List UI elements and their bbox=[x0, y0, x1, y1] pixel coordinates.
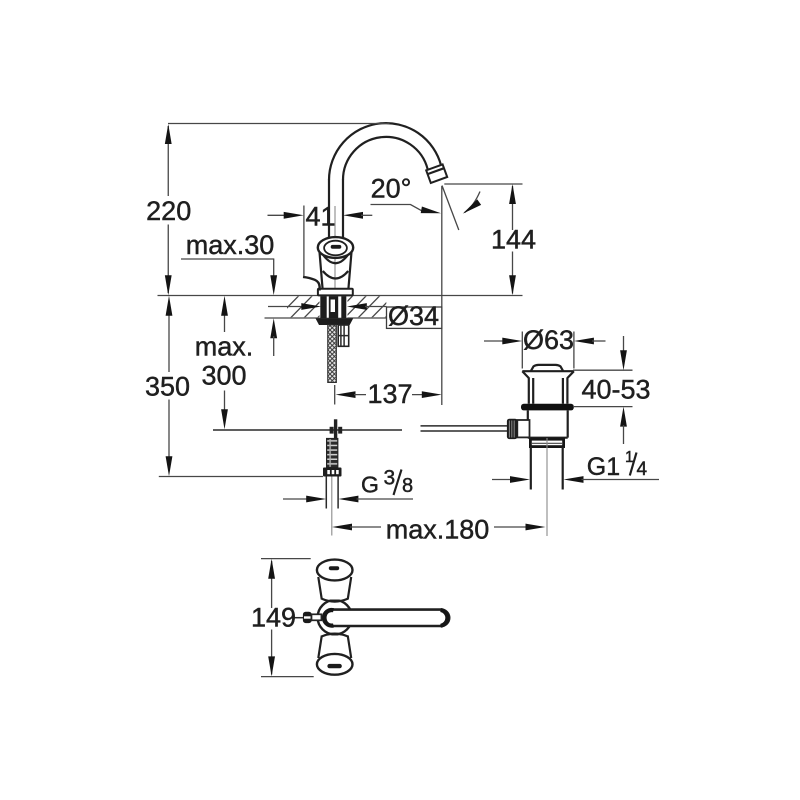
spout outlet vertical reference line bbox=[441, 186, 443, 405]
svg-text:350: 350 bbox=[145, 372, 190, 402]
spout bar bold left cap bbox=[324, 610, 334, 626]
drain centerline bbox=[546, 438, 548, 536]
dim 41 extension line bbox=[303, 206, 305, 277]
drain body outer walls bbox=[529, 378, 568, 404]
20 deg slanted line bbox=[442, 186, 459, 231]
drain plug dome bbox=[531, 365, 563, 371]
drain flange taper sides bbox=[522, 371, 574, 378]
dim O34 leader and box bbox=[268, 306, 304, 308]
supply hose stub bbox=[338, 325, 349, 346]
handle cap bottom arc bbox=[324, 256, 348, 264]
horizontal pop-up rod, right segment bbox=[421, 426, 508, 431]
threaded stud bbox=[328, 325, 337, 383]
deck bottom line bbox=[265, 317, 387, 319]
base escutcheon flange bbox=[318, 289, 353, 296]
knurled rod knob bbox=[507, 419, 518, 439]
dim 350 bottom reference line bbox=[159, 476, 323, 478]
hub circle bbox=[318, 600, 352, 634]
spout bar capsule bbox=[325, 610, 449, 626]
top handle ellipse bbox=[317, 560, 353, 581]
svg-text:149: 149 bbox=[251, 603, 296, 633]
horizontal pop-up rod, left segment bbox=[213, 429, 402, 431]
drain collar ring bbox=[530, 439, 563, 446]
svg-text:137: 137 bbox=[367, 379, 412, 409]
top handle slot bbox=[329, 566, 339, 570]
dim O63 bbox=[522, 332, 574, 369]
svg-text:G: G bbox=[361, 471, 379, 497]
dim 40-53 extension lines bbox=[573, 370, 633, 406]
handle skirt lower arc bbox=[323, 271, 348, 279]
G3/8 threaded connector bbox=[327, 439, 338, 468]
dim max.180 bbox=[332, 524, 352, 531]
drain tailpipe bbox=[531, 447, 563, 490]
riser pipe straight section bbox=[329, 180, 343, 241]
dim 137 bbox=[334, 385, 336, 405]
handle top inner ellipse bbox=[324, 241, 347, 256]
G3/8 nut bbox=[323, 468, 342, 477]
dim 144 line bbox=[512, 186, 514, 294]
dim 220 line bbox=[167, 126, 169, 293]
svg-text:8: 8 bbox=[402, 475, 413, 497]
mounting nut below deck bbox=[316, 318, 354, 325]
spout bar bold right cap bbox=[441, 610, 448, 626]
dim 149 bbox=[261, 559, 314, 677]
bottom handle neck bbox=[318, 636, 351, 659]
svg-text:20°: 20° bbox=[371, 173, 412, 203]
dim G1 1/4 bbox=[492, 479, 512, 481]
pop-up rod knob (front view, left of handle) bbox=[303, 277, 320, 291]
spout outlet horizontal extension line bbox=[444, 183, 522, 185]
gooseneck spout outer arc bbox=[329, 123, 441, 180]
top handle neck bbox=[318, 577, 351, 600]
svg-text:max.180: max.180 bbox=[386, 515, 490, 545]
svg-text:Ø34: Ø34 bbox=[388, 301, 439, 331]
rubber seal washer bbox=[521, 404, 574, 411]
dim 350 line bbox=[168, 314, 170, 459]
20 deg arc with arrow bbox=[465, 192, 481, 213]
dim 40-53 arrows bbox=[623, 336, 625, 352]
supply pipe centerline bbox=[331, 477, 333, 536]
svg-text:4: 4 bbox=[637, 459, 648, 480]
gooseneck spout inner arc bbox=[343, 137, 428, 180]
svg-text:3: 3 bbox=[384, 467, 396, 490]
svg-text:300: 300 bbox=[201, 361, 246, 391]
faucet shank through deck bbox=[320, 296, 348, 317]
svg-text:41: 41 bbox=[305, 202, 335, 232]
svg-text:max.30: max.30 bbox=[186, 230, 275, 260]
top reference line bbox=[168, 123, 390, 125]
bottom handle slot bbox=[327, 664, 341, 668]
dim G3/8 bbox=[283, 498, 309, 500]
dim 41 bbox=[268, 214, 287, 216]
handle slot bbox=[331, 245, 342, 249]
pop-up knob in plan bbox=[294, 617, 304, 619]
aerator cap at spout tip bbox=[426, 164, 447, 183]
faucet centerline bbox=[334, 206, 336, 295]
countertop deck top line bbox=[158, 295, 523, 297]
svg-text:G1: G1 bbox=[587, 453, 620, 481]
svg-text:Ø63: Ø63 bbox=[523, 325, 574, 355]
rod cross fitting at faucet axis bbox=[334, 419, 337, 438]
drain lower body bbox=[528, 410, 568, 437]
supply pipe below nut bbox=[326, 477, 338, 509]
svg-text:220: 220 bbox=[146, 196, 191, 226]
bottom handle ellipse bbox=[317, 654, 353, 675]
svg-text:144: 144 bbox=[491, 225, 536, 255]
20 deg leader bbox=[371, 205, 425, 213]
handle top outer ellipse bbox=[318, 237, 353, 258]
handle skirt sides bbox=[320, 252, 352, 289]
drain flange top bbox=[522, 370, 574, 372]
drain body inner walls bbox=[533, 378, 563, 404]
svg-text:40-53: 40-53 bbox=[581, 374, 650, 404]
rod attachment stub bbox=[517, 420, 529, 437]
deck hatching bbox=[276, 295, 408, 320]
max.30 leader bbox=[181, 259, 274, 278]
dim max.300 line bbox=[224, 314, 226, 412]
svg-text:max.: max. bbox=[195, 332, 254, 362]
